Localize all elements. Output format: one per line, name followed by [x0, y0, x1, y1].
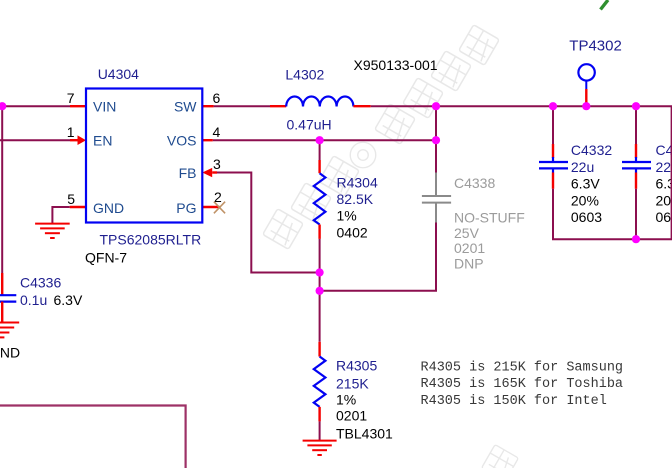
svg-text:C4333: C4333 [656, 142, 672, 158]
wire R4305 branch [318, 342, 320, 357]
svg-text:VIN: VIN [93, 99, 116, 115]
svg-text:L4302: L4302 [285, 67, 324, 83]
pin1 EN input arrow [78, 135, 87, 145]
wire R4305 to ground [319, 421, 321, 440]
junction dot ground rail [632, 235, 640, 243]
wire right cap red stub bottom [635, 173, 637, 189]
svg-text:TPS62085RLTR: TPS62085RLTR [100, 231, 202, 247]
wire pin1 red stub [70, 139, 78, 141]
wire C4338 branch from bus [435, 106, 437, 172]
ground under C4336 [0, 323, 19, 338]
svg-text:U4304: U4304 [98, 66, 139, 82]
svg-text:20%: 20% [571, 192, 599, 208]
capacitor C4336 plates [0, 295, 16, 301]
junction dot bus TP4302 [582, 102, 590, 110]
svg-text:R4305 is 150K for Intel: R4305 is 150K for Intel [421, 394, 607, 409]
wire pin7 red stub [70, 105, 86, 107]
svg-text:0603: 0603 [571, 209, 602, 225]
svg-text:VOS: VOS [167, 133, 197, 149]
svg-text:7: 7 [67, 90, 75, 106]
svg-text:0603: 0603 [656, 209, 672, 225]
svg-text:215K: 215K [336, 375, 369, 391]
wire pin5 red stub [70, 206, 86, 208]
junction dot bus C4332 [549, 102, 557, 110]
capacitor C4338 (no-stuff) [422, 173, 451, 223]
wire C4332 red stub top [552, 144, 554, 158]
capacitor C4333 (right, clipped) [622, 157, 651, 173]
wire feedback node to C4338 bottom [320, 223, 436, 291]
svg-text:1%: 1% [337, 208, 357, 224]
svg-text:R4305 is 215K for Samsung: R4305 is 215K for Samsung [421, 360, 624, 375]
svg-text:3: 3 [213, 156, 221, 172]
wire right edge vertical [671, 106, 672, 239]
watermark squiggles [263, 25, 519, 468]
junction dot C4338 return [316, 287, 324, 295]
wire pin6 SW red stub [202, 105, 213, 107]
svg-text:5: 5 [67, 191, 75, 207]
junction dot bus C4338 [432, 102, 440, 110]
svg-text:0.1u: 0.1u [20, 292, 47, 308]
junction dot VIN left [0, 102, 6, 110]
svg-text:R4305: R4305 [336, 358, 377, 374]
wire pin2 PG red stub [202, 206, 219, 208]
svg-text:SW: SW [174, 99, 197, 115]
junction dot bus right cap [632, 102, 640, 110]
svg-text:TP4302: TP4302 [569, 38, 622, 55]
junction dot VOS C4338 [432, 136, 440, 144]
svg-text:6.3V: 6.3V [571, 176, 600, 192]
svg-text:C4338: C4338 [454, 175, 495, 191]
wire red stub right of L4302 [353, 105, 370, 107]
resistor R4305 zigzag [314, 357, 326, 407]
ground under R4305 [303, 441, 337, 455]
svg-text:1%: 1% [336, 392, 356, 408]
svg-text:22u: 22u [656, 159, 672, 175]
IC U4304 body [86, 89, 202, 223]
resistor R4304 red stub bottom [318, 225, 320, 239]
test point red stub [585, 89, 587, 106]
inductor L4302 [286, 96, 353, 106]
svg-text:0402: 0402 [337, 224, 368, 240]
svg-text:25V: 25V [454, 225, 480, 241]
svg-text:C4336: C4336 [20, 274, 61, 290]
wire red below C4336 [1, 302, 3, 323]
ground under pin 5 [35, 224, 70, 238]
wire FB loop [217, 173, 320, 273]
wire EN from left edge [0, 139, 70, 141]
no-connect X on PG [214, 202, 225, 214]
resistor R4304 red stub top [318, 160, 320, 173]
svg-text:20%: 20% [656, 192, 672, 208]
svg-text:DNP: DNP [454, 256, 484, 272]
junction dot FB node [316, 268, 324, 276]
test point TP4302 stem [585, 81, 587, 89]
svg-text:2: 2 [214, 189, 222, 205]
wire right cap bottom to rail [635, 189, 637, 239]
svg-text:6.3V: 6.3V [54, 292, 83, 308]
wire VIN from left bus to U4304 pin 7 [0, 105, 70, 107]
junction dot R4304 top [316, 136, 324, 144]
svg-text:GND: GND [93, 200, 124, 216]
green annotation stroke top [601, 0, 609, 10]
wire pin5 to ground [52, 207, 69, 224]
wire output bus to right edge [371, 105, 672, 107]
wire pin4 VOS red stub [202, 139, 213, 141]
pin3 FB input arrow [202, 168, 212, 177]
svg-text:X950133-001: X950133-001 [354, 57, 438, 73]
svg-text:6: 6 [213, 90, 221, 106]
resistor R4304 zigzag [314, 173, 326, 224]
svg-text:FB: FB [179, 165, 197, 181]
wire VOS to C4338 branch [213, 139, 436, 141]
svg-text:22u: 22u [571, 159, 594, 175]
wire R4304 bottom to junctions [319, 239, 321, 342]
resistor R4304 branch top [319, 140, 321, 160]
svg-text:QFN-7: QFN-7 [85, 249, 127, 265]
wire red stub left of L4302 [270, 105, 286, 107]
wire red to C4336 top plate [1, 273, 3, 295]
svg-text:TBL4301: TBL4301 [336, 425, 393, 441]
wire C4332 branch top [552, 106, 554, 144]
resistor R4305 red stub bottom [318, 407, 320, 422]
wire C4332 bottom to rail [553, 189, 672, 239]
capacitor C4332 [539, 157, 568, 173]
svg-text:R4304: R4304 [337, 175, 378, 191]
svg-text:GND: GND [0, 344, 20, 360]
wire left vertical branch to C4336 [1, 106, 3, 273]
svg-text:1: 1 [67, 124, 75, 140]
svg-text:0201: 0201 [454, 240, 485, 256]
svg-text:0201: 0201 [336, 408, 367, 424]
svg-text:82.5K: 82.5K [337, 191, 374, 207]
test point TP4302 circle [578, 64, 594, 80]
svg-text:EN: EN [93, 133, 112, 149]
svg-text:6.3V: 6.3V [656, 176, 672, 192]
svg-text:NO-STUFF: NO-STUFF [454, 210, 525, 226]
svg-text:C4332: C4332 [571, 142, 612, 158]
svg-text:4: 4 [213, 124, 221, 140]
hierarchy block outline bottom-left [0, 406, 186, 468]
svg-text:0.47uH: 0.47uH [287, 117, 332, 133]
svg-text:PG: PG [176, 200, 196, 216]
wire right cap branch top [635, 106, 637, 144]
wire FB red stub [212, 171, 217, 173]
wire C4332 red stub bottom [552, 173, 554, 189]
svg-text:R4305 is 165K for Toshiba: R4305 is 165K for Toshiba [421, 377, 624, 392]
wire right cap red stub top [635, 144, 637, 158]
wire SW to inductor [214, 105, 270, 107]
